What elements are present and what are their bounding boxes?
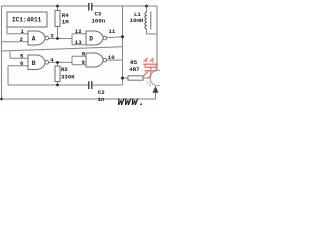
svg-text:IC1:4011: IC1:4011 [12,17,42,24]
svg-text:C2: C2 [98,89,105,96]
svg-text:1: 1 [21,28,25,35]
svg-text:R5: R5 [130,59,137,66]
svg-text:4R7: 4R7 [129,66,140,73]
svg-text:13: 13 [75,39,82,46]
svg-text:6: 6 [20,60,24,67]
svg-text:WWW.: WWW. [118,97,146,109]
svg-text:11: 11 [109,28,116,35]
svg-text:1n: 1n [98,96,105,103]
svg-text:330K: 330K [61,73,75,80]
svg-text:8: 8 [82,51,86,58]
svg-text:3: 3 [50,32,54,39]
svg-text:R2: R2 [61,66,68,73]
svg-text:D: D [89,36,93,43]
svg-text:5: 5 [20,52,24,59]
svg-text:9: 9 [82,59,86,66]
svg-text:100n: 100n [92,18,106,25]
svg-text:A: A [32,36,36,43]
svg-text:1M: 1M [62,19,69,26]
svg-text:10mH: 10mH [130,17,143,24]
svg-text:12: 12 [75,28,82,35]
svg-text:4: 4 [50,56,54,63]
svg-text:C3: C3 [95,10,102,17]
svg-text:B: B [32,60,36,67]
svg-text:10: 10 [108,54,115,61]
svg-text:2: 2 [20,36,24,43]
